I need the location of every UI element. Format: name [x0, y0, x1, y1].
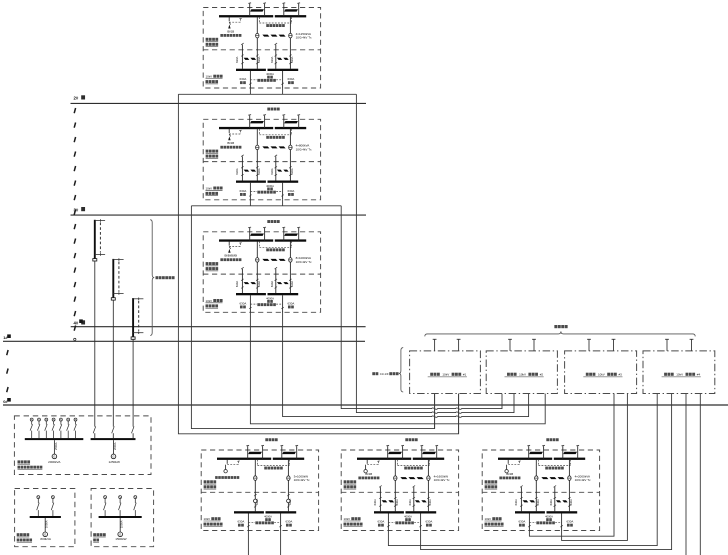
- blockC LV cable bundle 1: [523, 500, 529, 502]
- svg-text:10kV: 10kV: [676, 373, 683, 377]
- generator room 3 bus: [99, 516, 142, 518]
- blockB isolator tick upper x242.4: [379, 497, 381, 499]
- svg-text:630A: 630A: [257, 281, 261, 287]
- generator room 1 name label: [18, 460, 21, 463]
- svg-text:10kV: 10kV: [206, 186, 213, 190]
- block2 incoming feeder 1 top terminals: [248, 114, 251, 117]
- generator room 1 outlet circles: [30, 418, 33, 421]
- block2 isolator tick upper x257.3: [256, 166, 258, 168]
- block2 isolator tick lower x242.4: [241, 174, 243, 176]
- bus riser 1 lower tap: [95, 253, 105, 255]
- blockC metering unit B: [568, 476, 571, 481]
- blockC standby generator connection point: [506, 465, 508, 470]
- block2 10kV bus section I: [219, 127, 273, 129]
- svg-text:4000A: 4000A: [404, 515, 412, 519]
- blockB standby generator connection point: [365, 465, 367, 470]
- svg-text:630A: 630A: [257, 168, 261, 174]
- svg-text:Bl/1B: Bl/1B: [506, 472, 513, 476]
- block2 transformer feeder wire A: [256, 129, 258, 181]
- generator 2 circle: [43, 532, 48, 537]
- blockB isolator tick upper x290.4: [427, 497, 429, 499]
- block2 10kV switch bus section II: [268, 181, 299, 183]
- blockB isolator tick upper x257.3: [394, 497, 396, 499]
- blockC isolator tick lower x242.4: [520, 505, 522, 507]
- svg-text:2#: 2#: [74, 96, 79, 101]
- svg-text:Bl/1B: Bl/1B: [227, 141, 234, 145]
- svg-text:#2: #2: [540, 373, 544, 377]
- blockB electrical interlock dashed line (LV): [387, 514, 389, 522]
- generator room 2 outlets: [37, 496, 40, 499]
- block1 LV cable bundle 2: [277, 58, 282, 60]
- svg-text:630A: 630A: [428, 499, 432, 505]
- blockA standby generator connection point: [225, 465, 227, 470]
- tie dashed riser between trunk lines (x75): [74, 108, 75, 113]
- block2 LV cable bundle 1: [244, 170, 250, 172]
- svg-text:10/0.4kV Tx: 10/0.4kV Tx: [575, 478, 591, 482]
- block2 incoming feeder 2 cable riser: [283, 115, 285, 128]
- block2 feeder stub left: [249, 200, 251, 206]
- svg-text:10/0.4kV Tx: 10/0.4kV Tx: [296, 148, 312, 152]
- blockC electrical interlock dashed line (LV): [528, 514, 530, 522]
- blockB LV cable bundle 1: [382, 500, 388, 502]
- block1 electrical interlock dashed line (HV): [258, 17, 260, 23]
- blockC isolator tick upper x290.4: [568, 497, 570, 499]
- blockB LV bus-tie cable run: [400, 477, 407, 479]
- svg-text:630A: 630A: [286, 520, 293, 524]
- block3 metering unit A: [256, 258, 259, 263]
- block3 LV bus-tie cable run: [262, 259, 269, 261]
- utility box1 incoming stub 2: [458, 339, 460, 351]
- block1 electrical interlock label (HV): [266, 24, 269, 27]
- bus riser 1 parallel dashed conductor: [99, 222, 101, 252]
- utility box4 spare feeder 2: [699, 394, 701, 555]
- svg-text:2000kVA: 2000kVA: [48, 460, 61, 464]
- block1 incoming feeder 1 top terminals: [248, 2, 251, 5]
- block3 incoming switchgear 2 (drawout unit): [284, 234, 298, 236]
- blockC incoming switchgear 2 (drawout unit): [563, 452, 577, 454]
- svg-text:630A: 630A: [514, 499, 518, 505]
- block A feeder continuation left: [247, 530, 249, 555]
- blockA 10kV switch bus section II: [266, 511, 297, 513]
- block1 incoming feeder 2 top terminals: [282, 2, 285, 5]
- blockA incoming feeder 1 top terminals: [246, 444, 249, 447]
- bus riser 2 lower tap: [113, 293, 123, 295]
- block1 transformer feeder wire A: [256, 17, 258, 69]
- blockB electrical interlock label (LV): [395, 521, 398, 524]
- svg-text:1250kW: 1250kW: [109, 460, 120, 464]
- svg-text:1500kW: 1500kW: [115, 537, 126, 541]
- blockC isolator tick lower x290.4: [568, 505, 570, 507]
- utility box4 label: [664, 373, 667, 376]
- svg-text:G: G: [112, 455, 114, 459]
- block2 isolator tick upper x242.4: [241, 166, 243, 168]
- svg-text:630A: 630A: [235, 281, 239, 287]
- block1 upper room label: [206, 38, 209, 41]
- blockA section divider: [201, 491, 318, 493]
- svg-text:630A: 630A: [270, 168, 274, 174]
- blockC isolator tick upper x257.3: [535, 497, 537, 499]
- block2 feeder loop right vertical + run to utility box2: [341, 206, 502, 409]
- blockB incoming feeder 1 cable riser: [387, 446, 389, 459]
- blockB isolator tick lower x242.4: [379, 505, 381, 507]
- svg-text:630A: 630A: [288, 301, 295, 305]
- block2 10kV switch bus section I: [236, 181, 266, 183]
- block1 interlock dashed link (left): [229, 21, 240, 23]
- blockB isolator tick lower x275.8: [413, 505, 415, 507]
- block3 interlocked breaker arrow symbol: [229, 247, 230, 249]
- utility box3 feeder run to block C right: [562, 394, 628, 541]
- generator 1A feeder: [53, 440, 55, 454]
- svg-text:10kV: 10kV: [519, 373, 526, 377]
- blockC electrical interlock label (LV): [536, 521, 539, 524]
- blockC isolator tick lower x257.3: [535, 505, 537, 507]
- block3 bus-coupler tap wire: [228, 241, 230, 245]
- generator room 2 name label: [17, 533, 20, 536]
- blockC 10kV switch bus section I: [515, 511, 545, 513]
- svg-text:630A: 630A: [549, 499, 553, 505]
- block2 10kV bus section II: [275, 127, 306, 129]
- block2 upper room label: [206, 150, 209, 153]
- generator room 1 riser inlets: [93, 426, 96, 433]
- bus riser 3 lower tap: [133, 332, 143, 334]
- blockA 10kV bus section I: [217, 458, 271, 460]
- svg-text:4000A: 4000A: [266, 296, 274, 300]
- utility box3 incoming stub 1: [588, 339, 590, 351]
- crossing hop squiggles: [432, 408, 437, 410]
- svg-text:Bl/1B: Bl/1B: [365, 472, 372, 476]
- blockA transformer feeder wire B: [287, 460, 289, 512]
- utility box1 enclosure (dash-dot): [410, 351, 481, 394]
- block3 isolator tick lower x242.4: [241, 287, 243, 289]
- blockC outgoing circuit riser 1: [520, 487, 522, 511]
- block1 electrical interlock dashed line (LV): [249, 72, 251, 80]
- bus riser 3 bus duct (thick): [132, 298, 134, 337]
- svg-text:G: G: [119, 533, 121, 537]
- trunk line building 1: [3, 340, 365, 342]
- blockC electrical interlock dashed line (HV): [537, 460, 539, 466]
- svg-text:630A: 630A: [240, 77, 247, 81]
- blockB metering unit B: [427, 476, 430, 481]
- block3 feeder left run to utility box2: [250, 311, 545, 424]
- svg-text:10kV: 10kV: [204, 517, 211, 521]
- svg-text:10kV: 10kV: [598, 373, 605, 377]
- blockC outgoing 630A feeder 1: [528, 513, 530, 530]
- utility box3 feeder run to block C left: [529, 394, 614, 537]
- blockC section divider: [482, 491, 599, 493]
- utility box2 incoming stub 2: [533, 339, 535, 351]
- block2 outgoing 630A feeder 2: [282, 183, 284, 200]
- blockC outgoing circuit riser 2: [554, 487, 556, 511]
- tie dashed riser between trunk lines (x7): [7, 350, 8, 355]
- block2 outgoing 630A feeder 1: [249, 183, 251, 200]
- bus riser 1 bottom terminal box: [93, 259, 97, 261]
- blockB isolator tick lower x257.3: [394, 505, 396, 507]
- utility supply bracket label: [554, 325, 557, 328]
- block1 isolator tick lower x275.8: [275, 62, 277, 64]
- block1 feeder loop left vertical + run to utility box1: [178, 94, 458, 434]
- svg-text:630A: 630A: [255, 498, 259, 504]
- svg-text:#4: #4: [697, 373, 701, 377]
- blockC electrical interlock label (HV): [545, 467, 548, 470]
- blockB room name label: [405, 438, 408, 441]
- blockA outgoing switch circle 1: [254, 499, 258, 503]
- generator 1B circle: [111, 454, 116, 459]
- block2 isolator tick lower x257.3: [256, 174, 258, 176]
- block1 isolator tick upper x290.4: [289, 55, 291, 57]
- generator 2 feeder: [44, 518, 46, 532]
- blockB incoming feeder 2 top terminals: [420, 444, 423, 447]
- generator room 2 bus: [30, 516, 61, 518]
- blockB section divider: [341, 491, 458, 493]
- generator 3 feeder: [119, 518, 121, 532]
- block2 bus-coupler tap wire: [228, 129, 230, 133]
- block1 10kV bus section II: [275, 15, 306, 17]
- svg-text:4000A: 4000A: [545, 515, 553, 519]
- blockC incoming feeder 2 top terminals: [561, 444, 564, 447]
- svg-text:4000A: 4000A: [264, 515, 272, 519]
- block1 outgoing 630A feeder 1: [249, 71, 251, 88]
- bus riser 2 bottom terminal box: [111, 298, 115, 300]
- utility box2 enclosure (dash-dot): [486, 351, 557, 394]
- svg-text:630A: 630A: [426, 520, 433, 524]
- blockC upper room label: [485, 480, 488, 483]
- block3 electrical interlock label (LV): [257, 303, 260, 306]
- blockB outgoing circuit riser 1: [379, 487, 381, 511]
- svg-text:800kVA: 800kVA: [40, 537, 52, 541]
- blockA incoming switchgear 2 (drawout unit): [282, 452, 296, 454]
- blockC incoming feeder 1 top terminals: [527, 444, 530, 447]
- generator 1A circle: [52, 454, 57, 459]
- blockB LV cable bundle 2: [415, 500, 420, 502]
- bus riser 3 upper tap: [133, 298, 143, 300]
- generator room 2 enclosure: [15, 489, 75, 547]
- block2 isolator tick upper x275.8: [275, 166, 277, 168]
- blockA incoming switchgear 1 (drawout unit): [248, 452, 262, 454]
- block3 electrical interlock dashed line (LV): [249, 296, 251, 304]
- blockA interlock dashed link (left): [227, 464, 238, 466]
- trunk line building 4: [71, 326, 366, 328]
- blockB incoming feeder 1 top terminals: [386, 444, 389, 447]
- blockA upper room label: [204, 480, 207, 483]
- block1 10kV switch bus section II: [268, 69, 299, 71]
- bus riser 1 downstream wire to generator room: [94, 261, 96, 427]
- svg-text:630A: 630A: [257, 56, 261, 62]
- block3 outgoing circuit riser 1: [241, 269, 243, 293]
- block2 electrical interlock dashed line (LV): [249, 184, 251, 192]
- block2 electrical interlock dashed line (HV): [258, 129, 260, 135]
- utility box4 incoming stub 1: [666, 339, 668, 351]
- blockA interlocked-breaker label: [215, 476, 218, 479]
- svg-text:4000A: 4000A: [266, 72, 274, 76]
- blockC bus-coupler tap wire: [507, 460, 509, 464]
- generator room 1 enclosure: [14, 416, 151, 475]
- generator room 1 bus A: [25, 438, 84, 440]
- blockC outline (dashed enclosure): [482, 450, 599, 531]
- blockC 10kV switch bus section II: [547, 511, 578, 513]
- block1 transformer feeder wire B: [289, 17, 291, 69]
- blockC incoming feeder 1 cable riser: [528, 446, 530, 459]
- block1 isolator tick upper x242.4: [241, 55, 243, 57]
- block2 outgoing circuit riser 1: [241, 156, 243, 180]
- blockA outgoing 630A feeder 2: [280, 513, 282, 530]
- blockB 10kV switch bus section I: [374, 511, 404, 513]
- block3 outline (dashed enclosure): [203, 232, 320, 312]
- blockB metering unit A: [394, 476, 397, 481]
- svg-text:Bl/Bl/Bl/Bl: Bl/Bl/Bl/Bl: [224, 254, 237, 258]
- block1 LV cable bundle 1: [244, 58, 250, 60]
- blockA electrical interlock dashed line (HV): [256, 460, 258, 466]
- generator 3 circle: [118, 532, 123, 537]
- blockC 10kV bus section I: [498, 458, 552, 460]
- utility box3 label: [586, 373, 589, 376]
- blockA outgoing 630A feeder 1: [247, 513, 249, 530]
- block1 feeder stub left: [249, 88, 251, 94]
- blockC room name label: [546, 438, 549, 441]
- svg-text:630A: 630A: [569, 499, 573, 505]
- block2 interlock dashed link (left): [229, 133, 240, 135]
- blockA bus-coupler tap wire: [226, 460, 228, 464]
- utility box4 incoming stub 2: [691, 339, 693, 351]
- blockB outline (dashed enclosure): [341, 450, 458, 531]
- block3 incoming feeder 1 cable riser: [249, 228, 251, 241]
- blockB transformer feeder wire B: [427, 460, 429, 512]
- block3 upper room label: [206, 262, 209, 265]
- svg-text:10/0.4kV Tx: 10/0.4kV Tx: [296, 36, 312, 40]
- blockB isolator tick upper x275.8: [413, 497, 415, 499]
- block1 isolator tick upper x257.3: [256, 55, 258, 57]
- block3 incoming feeder 2 top terminals: [282, 226, 285, 229]
- block2 isolator tick lower x290.4: [289, 174, 291, 176]
- utility box1 drop wire redraw: [434, 394, 436, 429]
- blockA incoming feeder 2 top terminals: [280, 444, 283, 447]
- blockA isolator ticks 1: [254, 494, 256, 496]
- block2 outgoing circuit riser 2: [275, 156, 277, 180]
- blockA isolator ticks 2: [287, 494, 289, 496]
- blockB outgoing 630A feeder 2: [420, 513, 422, 530]
- block3 outgoing 630A feeder 2: [282, 295, 284, 312]
- block3 incoming feeder 2 cable riser: [283, 228, 285, 241]
- svg-text:G: G: [44, 533, 46, 537]
- svg-text:2500A: 2500A: [54, 442, 58, 450]
- block1 metering unit B: [289, 33, 292, 38]
- blockC outgoing 630A feeder 2: [561, 513, 563, 530]
- blockC incoming feeder 2 cable riser: [562, 446, 564, 459]
- blockB 10kV switch bus section II: [406, 511, 437, 513]
- blockB outgoing circuit riser 2: [413, 487, 415, 511]
- block1 feeder stub right: [282, 88, 284, 94]
- block2 feeder stub right: [282, 200, 284, 206]
- block3 feeder right run to utility box2: [283, 311, 529, 416]
- block3 metering unit B: [289, 258, 292, 263]
- block3 interlock dashed link (left): [229, 246, 240, 248]
- block3 transformer feeder wire A: [256, 242, 258, 294]
- block3 isolator tick lower x257.3: [256, 287, 258, 289]
- block1 feeder loop right vertical + run to utility box2: [356, 94, 514, 412]
- blockB electrical interlock dashed line (HV): [396, 460, 398, 466]
- block3 incoming switchgear 1 (drawout unit): [250, 234, 264, 236]
- block2 interlocked breaker arrow symbol: [229, 134, 230, 136]
- blockB isolator tick lower x290.4: [427, 505, 429, 507]
- svg-text:630A: 630A: [240, 189, 247, 193]
- svg-text:630A: 630A: [288, 77, 295, 81]
- utility box3 incoming stub 2: [613, 339, 615, 351]
- block3 isolator tick upper x275.8: [275, 279, 277, 281]
- blockC metering unit A: [535, 476, 538, 481]
- block1 10kV switch bus section I: [236, 69, 266, 71]
- bus riser 2 parallel dashed conductor: [118, 262, 120, 292]
- svg-text:630A: 630A: [238, 520, 245, 524]
- cable trench note brace: [399, 348, 403, 392]
- block1 isolator tick upper x275.8: [275, 55, 277, 57]
- block3 electrical interlock label (HV): [266, 248, 269, 251]
- svg-text:4000A: 4000A: [266, 184, 274, 188]
- utility box4 spare feeder 1: [685, 394, 687, 555]
- bus riser 2 bus duct (thick): [112, 259, 114, 298]
- block1 feeder loop top edge: [178, 93, 356, 95]
- block1 isolator tick lower x257.3: [256, 62, 258, 64]
- block3 isolator tick lower x290.4: [289, 287, 291, 289]
- riser group brace label: [156, 276, 159, 279]
- block1 bus-coupler tap wire: [228, 17, 230, 21]
- utility box4 feeder run to block B left: [388, 394, 657, 546]
- bus riser 3 bottom terminal box: [131, 337, 135, 339]
- block3 electrical interlock dashed line (HV): [258, 242, 260, 248]
- block1 incoming feeder 1 cable riser: [249, 4, 251, 17]
- blockC isolator tick lower x275.8: [554, 505, 556, 507]
- utility supply bracket: [425, 331, 695, 336]
- block1 outgoing circuit riser 1: [241, 45, 243, 69]
- block3 LV cable bundle 2: [277, 282, 282, 284]
- svg-text:630A: 630A: [290, 56, 294, 62]
- blockB incoming switchgear 1 (drawout unit): [388, 452, 402, 454]
- blockB incoming switchgear 2 (drawout unit): [422, 452, 436, 454]
- block1 isolator tick lower x242.4: [241, 62, 243, 64]
- block1 outgoing circuit riser 2: [275, 45, 277, 69]
- block2 isolator tick lower x275.8: [275, 174, 277, 176]
- svg-text:10kV: 10kV: [206, 75, 213, 79]
- svg-text:10/0.4kV Tx: 10/0.4kV Tx: [296, 260, 312, 264]
- utility box2 label: [507, 373, 510, 376]
- block2 outline (dashed enclosure): [203, 119, 320, 200]
- svg-text:630A: 630A: [288, 189, 295, 193]
- block3 outgoing circuit riser 2: [275, 269, 277, 293]
- svg-text:10/0.4kV Tx: 10/0.4kV Tx: [434, 478, 450, 482]
- blockA incoming feeder 2 cable riser: [281, 446, 283, 459]
- trunk line building 2 (top): [71, 102, 367, 104]
- bus riser 1 upper tap: [95, 220, 105, 222]
- block2 LV bus-tie cable run: [262, 146, 269, 148]
- block2 feeder loop top edge: [191, 205, 341, 207]
- svg-text:1000A: 1000A: [45, 520, 49, 528]
- block1 10kV bus section I: [219, 15, 273, 17]
- svg-text:630A: 630A: [288, 498, 292, 504]
- block1 incoming switchgear 1 (drawout unit): [250, 9, 264, 11]
- svg-text:G: G: [53, 455, 55, 459]
- blockC transformer feeder wire A: [535, 460, 537, 512]
- blockB interlock dashed link (left): [367, 464, 378, 466]
- block1 electrical interlock label (LV): [257, 79, 260, 82]
- block1 incoming feeder 2 cable riser: [283, 4, 285, 17]
- blockB 10kV bus section II: [413, 458, 444, 460]
- block3 LV cable bundle 1: [244, 282, 250, 284]
- blockA 10kV switch bus section I: [234, 511, 264, 513]
- utility box4 feeder run to block B right: [421, 394, 672, 550]
- bus riser 2 upper tap: [113, 259, 123, 261]
- blockC LV bus-tie cable run: [541, 477, 548, 479]
- blockA outline (dashed enclosure): [201, 450, 318, 531]
- trunk line building 3: [71, 214, 367, 216]
- blockA outgoing switch circle 2: [287, 499, 291, 503]
